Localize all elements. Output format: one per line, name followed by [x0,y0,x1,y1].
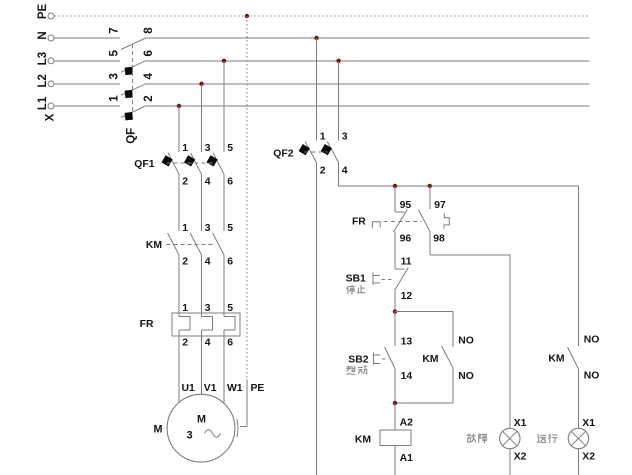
svg-text:L2: L2 [37,74,49,87]
svg-text:V1: V1 [204,383,217,394]
breaker QF1 pole 3-4 [184,84,211,188]
thermal relay FR heater 3-4 [202,303,213,348]
breaker QF linkage [131,44,133,116]
terminal N [37,31,54,41]
contactor KM aux label [422,354,438,365]
svg-text:98: 98 [433,234,445,245]
breaker QF pole 5-6 (L3) [109,50,156,76]
wire N rail right [145,37,590,39]
contactor coil KM label [355,434,371,445]
svg-text:4: 4 [205,257,211,268]
svg-text:NO: NO [458,335,474,346]
wire run lamp to bottom [577,449,579,475]
svg-text:3: 3 [205,303,211,314]
svg-text:6: 6 [227,257,233,268]
annotation 停止 (stop) [347,285,365,294]
wire PE rail (dotted) [54,15,588,17]
svg-text:2: 2 [182,338,188,349]
svg-text:97: 97 [434,200,446,211]
svg-text:X1: X1 [514,418,527,429]
terminal label X [45,113,57,121]
terminal L2 [37,74,54,87]
svg-text:1: 1 [182,223,188,234]
motor chassis arc [237,419,238,437]
wire FR-2 to motor U1 [178,336,180,402]
motor label 3 [186,429,192,441]
thermal relay FR actuator link [384,221,422,223]
wire QF1-4 to KM-3 [201,174,203,231]
contactor coil KM [380,430,411,445]
node N-QF2 [314,36,318,40]
svg-text:KM: KM [548,353,564,364]
node SB2/KM13 junction [393,309,397,313]
breaker QF2 label [273,148,293,159]
svg-text:8: 8 [143,27,155,34]
wire KM-4 to FR-3 [201,255,203,317]
wire PE drop (dotted) [246,16,248,380]
contactor KM main contact 3-4 [190,223,211,268]
svg-text:A1: A1 [400,453,414,464]
wire QF1-6 to KM-5 [223,174,225,231]
motor label M outside [154,424,163,436]
annotation 起动 (start) [347,366,367,374]
contactor KM run-lamp contact [568,335,600,429]
svg-text:U1: U1 [182,383,196,394]
breaker QF pole 7-8 (N) [109,27,156,50]
breaker QF2 linkage [305,151,328,153]
wire L3 rail right [145,60,590,62]
svg-text:3: 3 [109,73,121,79]
svg-text:1: 1 [182,143,188,154]
svg-text:96: 96 [400,234,412,245]
contactor KM main contact 1-2 [168,223,189,268]
wire L1 rail left [54,105,120,107]
svg-text:NO: NO [458,371,474,382]
push button SB2 NO contact [385,312,413,404]
annotation 运行 (run) [537,434,557,443]
svg-text:PE: PE [251,383,265,394]
svg-text:PE: PE [37,4,49,20]
run lamp HL2 [568,428,588,448]
breaker QF1 pole 5-6 [206,61,233,188]
motor label M inside [197,413,206,425]
wire L1 rail right [145,105,590,107]
svg-text:QF2: QF2 [273,148,293,159]
terminal PE [37,4,54,20]
motor terminal label V1 [204,383,217,394]
wire FR-4 to motor V1 [201,336,203,394]
breaker QF pole 3-4 (L2) [109,73,156,99]
wire QF2-2 to bottom (N) [316,163,318,475]
svg-text:FR: FR [140,319,154,330]
fault lamp HL1 [500,428,520,448]
svg-text:4: 4 [205,338,211,349]
node PE tap [245,14,249,18]
wire KM-6 to FR-5 [223,255,225,317]
svg-text:NO: NO [584,335,600,346]
thermal relay FR heater 1-2 [179,303,190,348]
wire PE drop solid [240,380,247,427]
svg-text:5: 5 [227,223,233,234]
node control rail / FR95 [393,184,397,188]
thermal relay FR actuator symbol [372,222,380,229]
svg-text:X: X [45,113,57,121]
svg-text:QF1: QF1 [134,159,154,170]
svg-text:13: 13 [401,337,413,348]
motor sine symbol [205,430,221,438]
annotation 故障 (fault) [467,434,487,443]
svg-text:95: 95 [400,200,412,211]
push button SB2 label [348,354,368,365]
node L2-QF1 [199,82,203,86]
svg-text:QF: QF [126,128,138,144]
fault lamp X2 label [514,452,527,463]
thermal relay FR NO contact 97-98 [419,186,446,255]
svg-text:3: 3 [342,132,348,143]
contactor KM label [146,240,162,251]
breaker QF2 pole 3-4 [321,132,348,177]
svg-text:L1: L1 [37,96,49,110]
wire L2 rail right [145,83,590,85]
contactor KM run-lamp label [548,353,564,364]
svg-text:X1: X1 [582,418,595,429]
terminal L1 [37,96,54,110]
wire FR98 to fault lamp [430,255,510,429]
svg-text:3: 3 [205,143,211,154]
svg-text:N: N [37,31,49,39]
wire L3 rail left [54,60,120,62]
push button SB1 label [346,274,366,285]
wire rail to KM run contact [577,186,579,346]
svg-text:1: 1 [320,132,326,143]
svg-text:2: 2 [320,165,326,176]
svg-text:KM: KM [355,434,371,445]
svg-text:3: 3 [186,429,192,441]
svg-text:KM: KM [146,240,162,251]
thermal relay FR label [140,319,154,330]
node control rail / FR97 [428,184,432,188]
wire L2 rail left [54,83,120,85]
wire N to QF2-1 [316,38,318,141]
svg-text:2: 2 [143,95,155,101]
run lamp X1 label [582,418,595,429]
thermal relay FR label (contacts) [352,217,366,228]
motor terminal label U1 [182,383,196,394]
svg-text:14: 14 [401,371,413,382]
svg-text:M: M [154,424,163,436]
svg-text:11: 11 [401,257,412,268]
push button SB1 actuator [373,273,394,285]
svg-text:6: 6 [227,177,233,188]
contactor KM main contact 5-6 [213,223,234,268]
push button SB1 NC contact [395,254,412,312]
svg-text:3: 3 [205,223,211,234]
motor terminal label W1 [227,383,243,394]
svg-text:X2: X2 [514,452,527,463]
svg-text:4: 4 [205,177,211,188]
svg-text:6: 6 [143,50,155,56]
wire N rail left [54,37,120,39]
wire fault lamp to bottom [509,449,511,475]
svg-text:5: 5 [227,143,233,154]
svg-text:6: 6 [227,338,233,349]
thermal relay FR NC contact 95-96 [393,186,411,254]
breaker QF pole 1-2 (L1) [109,95,156,121]
thermal relay FR latch symbol [444,213,449,228]
breaker QF1 label [134,159,154,170]
svg-text:4: 4 [143,73,155,80]
breaker QF1 pole 1-2 [161,106,188,188]
svg-text:5: 5 [227,303,233,314]
node KM14/A2 junction [393,401,397,405]
svg-text:SB2: SB2 [348,354,368,365]
svg-text:12: 12 [401,291,413,302]
wire QF2-4 to control rail [339,163,579,186]
breaker QF1 linkage [167,162,216,164]
svg-text:FR: FR [352,217,366,228]
wire QF1-2 to KM-1 [178,174,180,231]
svg-text:4: 4 [342,165,348,176]
wire coil A1 to bottom [395,445,413,475]
node L1-QF1 [177,104,181,108]
svg-text:A2: A2 [400,418,414,429]
svg-text:2: 2 [182,257,188,268]
node L3-QF1 [222,59,226,63]
wire FR-6 to motor W1 [223,336,225,403]
wire to coil A2 [395,403,413,430]
contactor KM aux contact 13-14 [442,312,474,404]
motor M1 circle [167,394,235,462]
svg-text:M: M [197,413,206,425]
svg-text:X2: X2 [582,452,595,463]
svg-text:NO: NO [584,370,600,381]
terminal L3 [37,52,54,65]
svg-text:2: 2 [182,177,188,188]
wire branch top link [395,311,453,313]
wire branch bottom link [395,402,453,404]
thermal relay FR heater 5-6 [224,303,235,348]
svg-text:5: 5 [109,50,121,57]
push button SB2 actuator [374,352,389,364]
svg-text:W1: W1 [227,383,243,394]
contactor KM linkage [167,243,216,245]
svg-text:1: 1 [182,303,188,314]
breaker QF label [126,128,138,144]
label PE at motor [251,383,265,394]
wire L3 to QF2-3 [338,61,340,141]
svg-text:1: 1 [109,95,121,102]
breaker QF2 pole 1-2 [299,132,326,177]
wire KM-2 to FR-1 [178,255,180,317]
node L3-QF2 [336,59,340,63]
thermal relay FR box [172,313,240,336]
fault lamp X1 label [514,418,527,429]
svg-text:L3: L3 [37,52,49,65]
svg-text:SB1: SB1 [346,274,366,285]
svg-text:KM: KM [422,354,438,365]
svg-text:7: 7 [109,27,121,33]
run lamp X2 label [582,452,595,463]
